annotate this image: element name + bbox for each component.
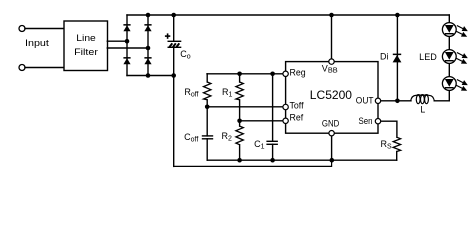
node bridge right top rail [146,13,151,18]
wire inner ground rail [207,159,397,161]
resistor R1 zigzag [236,82,243,100]
wire Roff bottom to Toff wire [206,100,208,107]
svg-text:Input: Input [25,37,49,48]
svg-text:GND: GND [322,118,339,128]
node C1 top [270,72,275,77]
wire bridge right column [147,15,149,76]
svg-text:Filter: Filter [74,47,99,58]
wire Ref horizontal [240,120,286,122]
wire Co branch vertical [173,15,175,41]
node filter lower to bridge [146,46,151,51]
wire node Reg horizontal [207,73,286,75]
pin Ref [283,118,288,123]
IC pin circles [283,59,381,136]
bridge diode bottom-left [123,57,130,64]
node Co top rail [171,13,176,18]
svg-text:Reg: Reg [290,68,306,78]
pin Toff [283,104,288,109]
wire Sen to Rs [378,121,397,137]
svg-text:LED: LED [419,52,437,62]
bridge diode top-left [123,24,130,31]
wire filter output upper [107,40,127,42]
wire Roff top lead [206,74,208,82]
wire Toff horizontal [207,106,285,108]
wire top rail [127,14,449,16]
node C1 ground [270,158,275,163]
line filter box [64,21,108,71]
resistor Roff zigzag [204,82,211,100]
bridge diode top-right [144,24,151,31]
svg-text:Ref: Ref [290,112,304,122]
LED D3 [442,77,466,91]
node R1 top [237,72,242,77]
LED D1 [442,23,466,37]
diode Di [393,54,402,63]
svg-text:VBB: VBB [322,64,338,75]
node R2 ground [237,158,242,163]
node Roff Coff Toff [205,105,210,110]
wire OUT to inductor [378,100,411,102]
wire bridge bottom rail [127,75,174,77]
wire filter output lower [107,47,148,49]
wire diode Di branch vertical [396,15,398,101]
node filter upper to bridge [125,39,130,44]
LED D2 [442,50,466,64]
IC U1 LC5200 box [286,62,378,134]
svg-text:Di: Di [380,52,389,62]
wire GND vertical [331,133,333,160]
bridge diode bottom-right [144,57,151,64]
node GND ground [330,158,335,163]
svg-text:OUT: OUT [356,95,374,105]
plus sign of Co [165,33,170,38]
node R1 R2 Ref [237,119,242,124]
pin Sen [375,119,380,124]
wire R1 leads [239,74,241,82]
node OUT Di L [395,99,400,104]
node Di top rail [395,13,400,18]
wire input top to line filter [25,28,64,30]
inductor L [411,95,435,104]
wire input bottom to line filter [25,67,64,69]
svg-text:Toff: Toff [290,101,305,111]
pin Reg [283,71,288,76]
wire R2 leads [239,121,241,126]
svg-text:Line: Line [76,33,96,44]
svg-text:Sen: Sen [359,116,373,126]
input terminal bottom [19,65,25,71]
node Co bridge bottom [171,73,176,78]
capacitor C1 [266,141,278,144]
resistor R2 zigzag [236,126,243,145]
wire C1 leads [272,74,274,142]
resistor Rs zigzag [393,137,400,151]
pin VBB [329,59,334,64]
pin GND [329,131,334,136]
capacitor Coff [202,136,213,139]
wire Coff leads [206,107,208,136]
wire LED column [448,15,450,101]
wire outer ground rail [174,160,332,166]
node VBB top rail [329,13,334,18]
input terminal top [19,26,25,32]
svg-text:L: L [420,105,425,115]
wire bridge left column [126,15,128,76]
node bridge right bottom rail [146,73,151,78]
wire VBB vertical [331,15,333,62]
svg-text:LC5200: LC5200 [310,88,352,102]
pin OUT [375,98,380,103]
capacitor Co (polarized, hatched plate) [168,41,182,47]
wire Rs bottom lead [396,152,398,161]
